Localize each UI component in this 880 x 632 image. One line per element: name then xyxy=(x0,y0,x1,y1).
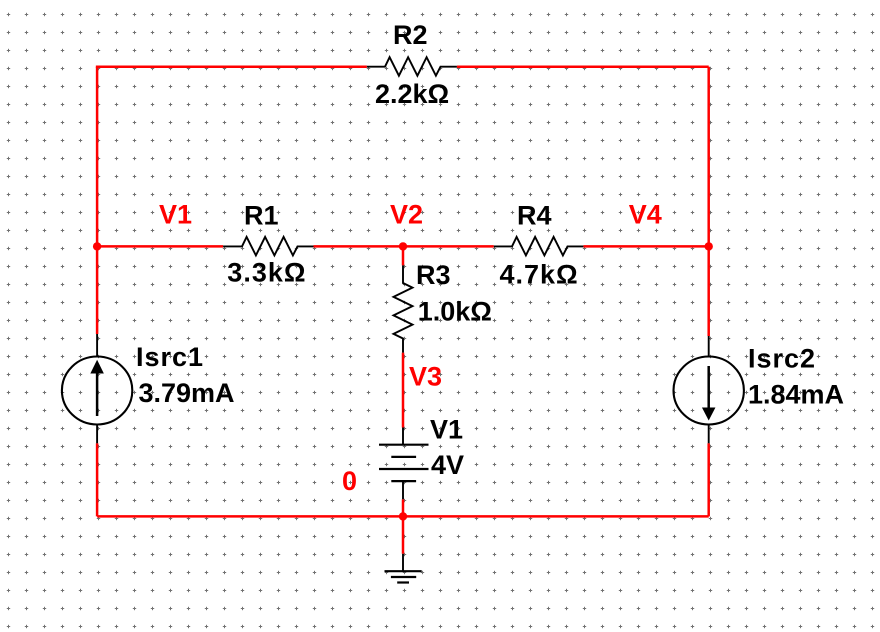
resistor R1 label xyxy=(244,201,279,231)
svg-text:2.2kΩ: 2.2kΩ xyxy=(375,79,449,109)
node V3 label xyxy=(409,362,442,392)
current source Isrc2 xyxy=(674,336,744,443)
resistor R1 xyxy=(223,237,313,256)
svg-text:V2: V2 xyxy=(390,200,423,230)
wire ground stub below bottom rail xyxy=(402,516,405,553)
resistor R1 value 3.3kΩ xyxy=(227,258,306,288)
battery V1 label xyxy=(430,415,463,445)
svg-text:1.84mA: 1.84mA xyxy=(748,380,844,410)
svg-text:0: 0 xyxy=(342,466,357,496)
wire node V3 segment R3 bottom lead to battery V1 top lead xyxy=(402,353,405,428)
wire node V2 down to R3 top lead xyxy=(402,246,405,265)
resistor R4 xyxy=(494,237,584,256)
svg-text:R3: R3 xyxy=(416,260,451,290)
wire right vertical lower (Isrc2 bottom to bottom-right corner) xyxy=(707,443,710,516)
node V2 label xyxy=(390,200,423,230)
resistor R3 label xyxy=(416,260,451,290)
resistor R3 value 1.0kΩ xyxy=(418,297,492,327)
svg-text:4V: 4V xyxy=(431,450,464,480)
junction node V4 xyxy=(705,242,713,250)
resistor R2 value 2.2kΩ xyxy=(375,79,449,109)
wire left vertical upper (V1 node to Isrc1 top) xyxy=(96,67,99,334)
resistor R3 (vertical) xyxy=(394,265,413,352)
wire middle row R4 right lead to node V4 xyxy=(583,245,708,248)
current source Isrc2 value 1.84mA xyxy=(748,380,844,410)
junction node V2 xyxy=(399,242,407,250)
svg-text:3.79mA: 3.79mA xyxy=(139,378,235,408)
svg-text:Isrc2: Isrc2 xyxy=(748,344,816,374)
svg-text:V3: V3 xyxy=(409,362,442,392)
current source Isrc1 value 3.79mA xyxy=(139,378,235,408)
wire battery V1 bottom lead to bottom rail xyxy=(402,499,405,516)
junction node 0 xyxy=(399,512,407,520)
wire top from node V1 up-left corner to R2 left lead xyxy=(97,66,367,67)
wire bottom rail xyxy=(97,515,709,518)
svg-text:R4: R4 xyxy=(517,201,552,231)
svg-text:V1: V1 xyxy=(430,415,463,445)
current source Isrc2 label xyxy=(748,344,816,374)
ground xyxy=(385,554,422,583)
current source Isrc1 label xyxy=(136,342,204,372)
svg-text:Isrc1: Isrc1 xyxy=(136,342,204,372)
resistor R4 value 4.7kΩ xyxy=(500,260,579,290)
svg-text:4.7kΩ: 4.7kΩ xyxy=(500,260,579,290)
wire top from R2 right lead to top-right corner xyxy=(457,65,709,68)
junction node V1 xyxy=(93,242,101,250)
wire middle row R1 right lead to node V2 xyxy=(314,245,404,248)
svg-text:3.3kΩ: 3.3kΩ xyxy=(227,258,306,288)
wire middle row node V1 to R1 left lead xyxy=(97,245,223,248)
battery V1 xyxy=(379,428,429,500)
resistor R4 label xyxy=(517,201,552,231)
node V1 label xyxy=(159,200,192,230)
svg-text:V1: V1 xyxy=(159,200,192,230)
wire middle row node V2 to R4 left lead xyxy=(403,245,494,248)
svg-text:R1: R1 xyxy=(244,201,279,231)
wire left vertical lower (Isrc1 bottom to bottom-left corner) xyxy=(96,443,99,516)
resistor R2 xyxy=(367,57,457,75)
current source Isrc1 xyxy=(62,334,132,443)
svg-text:V4: V4 xyxy=(629,200,662,230)
node V4 label xyxy=(629,200,662,230)
node 0 label xyxy=(342,466,357,496)
wire right vertical upper (top-right corner to Isrc2 top) xyxy=(707,67,710,336)
resistor R2 label xyxy=(393,20,428,50)
svg-text:1.0kΩ: 1.0kΩ xyxy=(418,297,492,327)
battery V1 value 4V xyxy=(431,450,464,480)
svg-text:R2: R2 xyxy=(393,20,428,50)
